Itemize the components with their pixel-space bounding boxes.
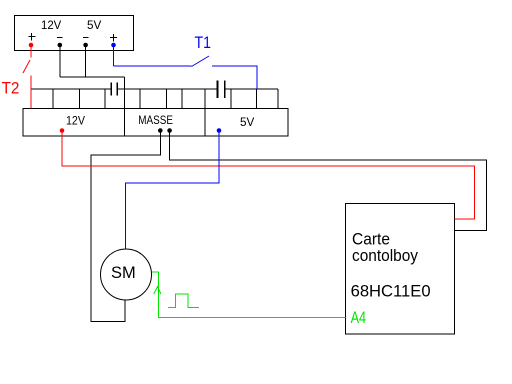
svg-text:Carte: Carte bbox=[352, 231, 390, 249]
svg-text:5V: 5V bbox=[240, 115, 254, 129]
svg-text:12V: 12V bbox=[66, 114, 85, 128]
svg-text:SM: SM bbox=[111, 264, 136, 282]
svg-text:5V: 5V bbox=[87, 18, 101, 32]
svg-text:12V: 12V bbox=[41, 18, 61, 32]
svg-text:68HC11E0: 68HC11E0 bbox=[351, 282, 431, 300]
svg-text:A4: A4 bbox=[351, 309, 367, 327]
svg-text:T2: T2 bbox=[2, 80, 20, 98]
svg-text:T1: T1 bbox=[195, 34, 212, 52]
svg-text:MASSE: MASSE bbox=[138, 113, 173, 127]
svg-text:contolboy: contolboy bbox=[352, 247, 419, 265]
